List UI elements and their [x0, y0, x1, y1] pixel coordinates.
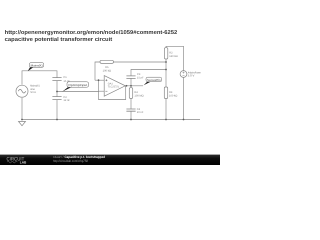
svg-text:12 nF: 12 nF	[63, 99, 70, 102]
resistor R6	[100, 60, 114, 63]
wire output to R4	[130, 86, 132, 88]
svg-text:http://openenergymonitor.org/e: http://openenergymonitor.org/emon/node/1…	[5, 29, 178, 36]
wire source bottom	[21, 98, 23, 120]
wire feedback bias loop	[95, 62, 100, 80]
svg-text:5.0 V: 5.0 V	[188, 74, 195, 78]
svg-text:LAB: LAB	[20, 160, 27, 164]
op-amp plus marker	[105, 79, 107, 81]
svg-text:C1: C1	[63, 76, 67, 79]
junction R6-column	[165, 61, 167, 63]
op-amp minus marker	[105, 90, 107, 92]
wire ground rail	[22, 119, 200, 121]
label ArduinoPower	[188, 71, 201, 78]
junction opamp plus input	[98, 79, 100, 81]
wire output	[125, 85, 143, 87]
svg-text:capacitive potential transform: capacitive potential transformer circuit	[5, 36, 113, 43]
flag Mains(K)	[28, 63, 44, 72]
label R2	[169, 51, 177, 58]
svg-text:OpAmpInput: OpAmpInput	[68, 83, 87, 87]
wire output feedback loop	[99, 86, 126, 100]
label R3	[169, 91, 177, 98]
wire C1 to C2	[56, 81, 58, 97]
svg-text:TLC2272L: TLC2272L	[108, 86, 120, 89]
junction supply-rail	[183, 119, 185, 121]
svg-text:http://circuitlab.com/c/hg758: http://circuitlab.com/c/hg758	[53, 159, 88, 163]
svg-text:100 MΩ: 100 MΩ	[134, 95, 143, 98]
junction C3-column	[165, 69, 167, 71]
label OA1	[108, 83, 120, 89]
svg-text:620 kΩ: 620 kΩ	[169, 55, 177, 58]
label C3	[137, 73, 144, 80]
voltage source Mains(K)	[16, 85, 28, 97]
wire supply bottom	[183, 77, 185, 119]
svg-text:15 pF: 15 pF	[63, 80, 70, 83]
wire plus input stub	[95, 79, 104, 81]
svg-text:R3: R3	[169, 91, 173, 94]
junction source-rail	[21, 119, 23, 121]
junction output-R4-C3	[130, 85, 132, 87]
label C2	[63, 96, 70, 102]
capacitor C1	[52, 78, 61, 81]
ground	[19, 122, 26, 126]
resistor R3	[164, 87, 167, 99]
label R6	[103, 66, 111, 73]
svg-text:100 kΩ: 100 kΩ	[103, 69, 111, 72]
supply source ArduinoPower	[180, 71, 187, 78]
wire R2 top to supply	[166, 46, 184, 70]
label C4	[137, 108, 144, 114]
label R4	[134, 91, 143, 98]
wire minus input stub	[99, 90, 105, 92]
label C1	[63, 76, 70, 83]
op-amp OA1	[104, 76, 125, 97]
wire node to opamp plus	[57, 80, 99, 91]
svg-text:SensorPin: SensorPin	[147, 78, 161, 82]
svg-text:R4: R4	[134, 91, 138, 94]
junction divider node	[56, 91, 58, 93]
capacitor C2	[52, 97, 61, 100]
wire C4 to rail	[130, 111, 132, 119]
flag OpAmpInput	[62, 82, 88, 92]
wire source top to C1	[22, 71, 57, 85]
wire R6 to column	[114, 61, 167, 63]
flag SensorPin	[144, 77, 162, 85]
junction C2-rail	[56, 119, 58, 121]
junction R3-rail	[165, 119, 167, 121]
junction C4-rail	[130, 119, 132, 121]
wire R2 R3 column	[165, 59, 167, 87]
wire R4 to C4	[130, 99, 132, 110]
svg-text:50 Hz: 50 Hz	[30, 91, 37, 94]
svg-text:15 pF: 15 pF	[137, 76, 144, 79]
logo wave	[7, 161, 17, 163]
capacitor C3	[126, 76, 135, 79]
label Mains source	[30, 85, 40, 95]
svg-text:R2: R2	[169, 51, 173, 54]
resistor R4	[129, 88, 132, 99]
junction output-feedback	[126, 85, 128, 87]
wire C2 to rail	[56, 100, 58, 120]
capacitor C4	[126, 109, 135, 111]
bottom bar	[0, 155, 220, 165]
resistor R2	[164, 48, 167, 59]
svg-text:Mains(K): Mains(K)	[31, 64, 43, 68]
wire R3 bottom	[165, 99, 167, 120]
svg-text:100 kΩ: 100 kΩ	[169, 95, 177, 98]
wire output to C3	[130, 78, 132, 85]
svg-text:10 nF: 10 nF	[137, 111, 144, 114]
wire C3 to bias node	[131, 70, 166, 76]
